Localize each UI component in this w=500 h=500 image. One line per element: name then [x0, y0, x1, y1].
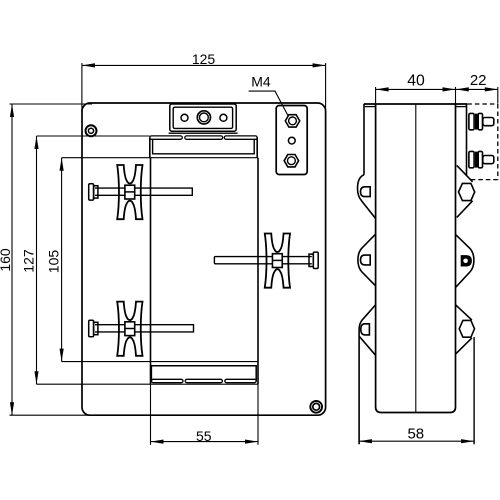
top plate outer sides: [150, 138, 257, 158]
terminal block top center outer: [170, 104, 236, 131]
small hole middle: [288, 137, 295, 144]
left bump 1 hole: [361, 187, 371, 197]
mounting hole bottom-right: [310, 401, 322, 413]
face line under top plate: [62, 157, 258, 159]
spool clamp 1 (top left): [117, 165, 142, 219]
top plate bar segment right: [224, 136, 257, 139]
right bump 2: [456, 235, 474, 287]
bottom plate outer sides: [151, 366, 256, 381]
right bump 1 diagonal upper: [457, 165, 473, 181]
left bump 3: [359, 305, 375, 444]
mounting hole top-left: [86, 125, 97, 136]
terminal block inner: [173, 107, 232, 128]
left bump 3 lower diagonal: [359, 336, 375, 355]
hex nut bottom: [284, 155, 298, 167]
dimension 127 left: [36, 136, 38, 384]
terminal block screw right: [220, 114, 227, 121]
spool clamp 2 (middle right): [265, 234, 290, 288]
terminal block screw center: [197, 111, 210, 124]
svg-text:40: 40: [407, 72, 425, 89]
screw 3 shaft: [95, 325, 194, 332]
dashed terminal box: [467, 104, 497, 180]
left bump 3 hole: [361, 324, 370, 335]
right clamp strip: [466, 104, 468, 175]
window right edge: [257, 158, 259, 385]
dimension 22 top side view: [456, 88, 498, 90]
svg-text:M4: M4: [251, 73, 271, 89]
left bump 2 hole: [361, 255, 371, 265]
bottom plate bar segment middle: [185, 379, 222, 382]
spool clamp 3 (bottom left): [117, 302, 142, 356]
window left edge: [150, 158, 152, 385]
front view body outline: [82, 103, 326, 415]
svg-text:58: 58: [407, 426, 424, 443]
right bump 3 diagonal lower: [456, 338, 472, 354]
svg-text:125: 125: [192, 51, 216, 67]
svg-text:55: 55: [196, 428, 212, 444]
left bump 2: [358, 234, 376, 285]
M4 leader line: [249, 91, 289, 116]
top plate bar segment middle: [185, 136, 223, 139]
left clamp strip: [363, 104, 365, 175]
dimension 55 bottom: [151, 441, 259, 443]
side view tube body: [376, 104, 456, 413]
face line upper: [37, 135, 150, 137]
dimension 58 bottom side view: [359, 440, 474, 442]
terminal block bottom lip: [169, 132, 238, 134]
right bump 3 vertical / 58 extension: [473, 337, 475, 444]
screw 3 bolt head: [89, 320, 94, 336]
screw 2 bolt head: [313, 252, 318, 268]
right strip lip: [456, 106, 466, 108]
svg-text:127: 127: [21, 249, 37, 273]
hex nut top (M4): [285, 115, 299, 127]
right bump 2 bolt (filled D): [461, 256, 471, 266]
dimension 40 top side view: [376, 88, 456, 90]
right terminal plate: [276, 106, 307, 175]
right bump 1 hex bolt: [459, 183, 475, 200]
bottom plate bar segment right: [225, 379, 256, 382]
svg-text:160: 160: [0, 248, 13, 272]
svg-text:105: 105: [46, 250, 62, 274]
tube top edge: [364, 103, 467, 105]
right bump 3 hex bolt: [459, 320, 474, 337]
right bump 3 diagonal upper: [456, 305, 472, 320]
svg-text:22: 22: [470, 72, 487, 89]
face line bottom / 127 extension: [37, 383, 259, 385]
window bottom edge / 105 extension: [62, 361, 258, 363]
left bump 1: [358, 175, 376, 219]
screw 1 bolt head: [89, 184, 94, 200]
terminal block screw left: [181, 114, 188, 121]
terminal stud lower: [469, 151, 494, 167]
screw 2 shaft: [214, 257, 311, 264]
tube center line: [415, 104, 417, 413]
top plate inner contour: [153, 139, 255, 154]
dimension 105 left: [61, 158, 63, 362]
dimension 160 left: [11, 104, 13, 415]
bottom plate bar segment left: [151, 379, 183, 382]
right bump 1 diagonal lower: [457, 201, 473, 218]
dimension 125 top: [82, 64, 326, 66]
top plate bar segment left: [150, 136, 183, 139]
terminal stud upper: [469, 113, 494, 129]
left strip lip: [365, 106, 376, 108]
screw 1 shaft: [95, 188, 192, 195]
